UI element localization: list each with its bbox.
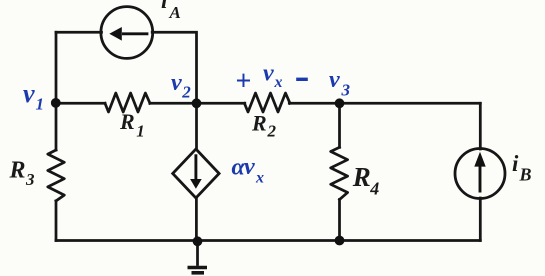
svg-text:R: R (9, 158, 26, 184)
svg-text:4: 4 (369, 178, 379, 198)
svg-text:R: R (119, 109, 135, 134)
svg-text:x: x (255, 170, 264, 187)
svg-text:R: R (352, 162, 371, 192)
svg-text:1: 1 (136, 122, 145, 141)
svg-text:3: 3 (341, 80, 351, 99)
svg-text:R: R (251, 111, 267, 136)
svg-text:B: B (519, 165, 532, 185)
svg-text:i: i (161, 0, 168, 13)
svg-text:1: 1 (36, 95, 45, 114)
svg-text:v: v (244, 154, 255, 180)
svg-text:2: 2 (267, 122, 277, 141)
svg-text:3: 3 (25, 170, 35, 189)
svg-text:x: x (274, 74, 283, 91)
svg-text:v: v (23, 79, 35, 108)
svg-text:2: 2 (181, 83, 191, 102)
svg-text:i: i (512, 151, 519, 176)
svg-text:+: + (236, 66, 252, 97)
svg-text:v: v (329, 67, 340, 93)
svg-text:A: A (169, 3, 181, 22)
svg-text:v: v (263, 60, 274, 86)
svg-text:v: v (171, 70, 182, 96)
